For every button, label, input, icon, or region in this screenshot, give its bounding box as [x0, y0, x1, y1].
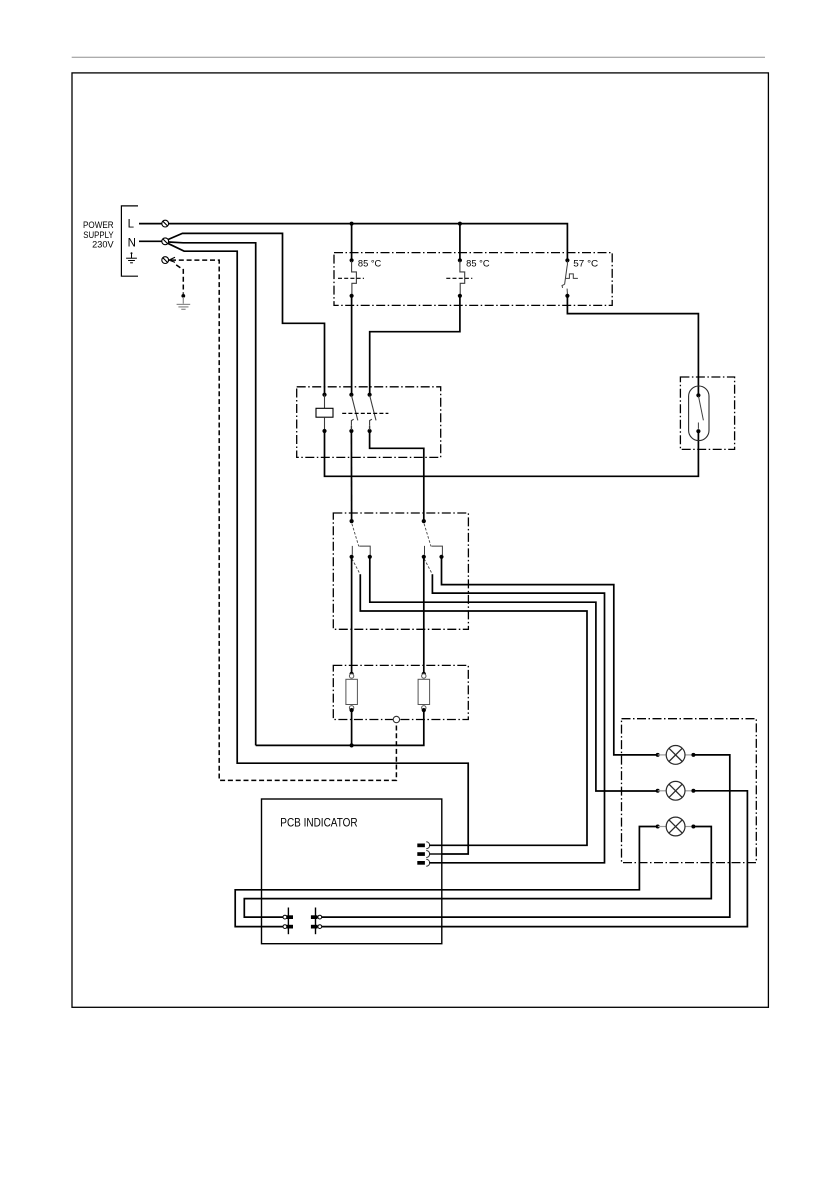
- svg-text:SUPPLY: SUPPLY: [83, 230, 113, 240]
- wire selector pole2 to heater element R2: [423, 557, 425, 674]
- svg-text:PCB INDICATOR: PCB INDICATOR: [280, 815, 358, 829]
- header rule: [72, 56, 765, 58]
- wire selector pole1 to heater element R1: [351, 557, 353, 674]
- thermal cutout F2 85C: [446, 258, 472, 298]
- wire lamp H2 to PCB connector J2 pin2: [322, 791, 748, 927]
- relay enclosure box: [297, 387, 441, 458]
- wire N branch to PCB supply: [168, 243, 468, 854]
- lamp H1: [656, 746, 696, 765]
- earth pictogram at bracket: [126, 252, 137, 263]
- wire L drop to 85C no.2: [459, 224, 461, 261]
- wire N branch to heater return: [169, 242, 256, 745]
- wire 85C no.2 to relay contact K2: [370, 296, 460, 395]
- wire earth dashed to heater frame: [171, 260, 396, 780]
- wire L bus to thermal cutouts and 57C thermostat: [169, 224, 568, 261]
- node L-85a: [350, 222, 354, 226]
- wire 85C no.1 to relay contact K1: [351, 296, 353, 395]
- wire relay K1 to selector pole 1: [350, 431, 352, 521]
- wire earth dashed branch to ground: [176, 265, 183, 294]
- PCB connector J2: [311, 908, 322, 935]
- PCB indicator box: [262, 799, 442, 944]
- relay contact K2: [368, 393, 377, 434]
- power supply bracket: [121, 206, 138, 276]
- label POWER SUPPLY 230V: [83, 220, 114, 249]
- svg-text:85 °C: 85 °C: [358, 258, 382, 268]
- wire selector pole2 aux to PCB pin 3: [429, 574, 604, 863]
- terminal N: [162, 238, 169, 245]
- selector switch pole 2: [422, 519, 444, 574]
- node heater return: [350, 743, 354, 747]
- selector switch enclosure box: [333, 513, 468, 629]
- wire N branch to relay coil: [168, 233, 325, 394]
- wire relay K2 to selector pole 2: [370, 431, 424, 521]
- heating element R1: [346, 672, 358, 713]
- ground symbol: [177, 297, 191, 309]
- thermostat 57C: [562, 258, 578, 298]
- thermal cutout F1 85C: [338, 258, 364, 298]
- terminal L: [162, 220, 169, 227]
- wire N lead: [139, 240, 162, 242]
- relay contact K1: [349, 393, 358, 434]
- wire selector pole2 throw to lamp 1: [442, 557, 658, 755]
- selector switch pole 1: [350, 519, 372, 574]
- wire R2 return: [352, 710, 424, 745]
- wire L drop to 85C no.1: [351, 224, 353, 261]
- relay coil K: [316, 393, 333, 434]
- relay linkage dashed: [342, 412, 388, 414]
- node L-85b: [458, 222, 462, 226]
- svg-text:85 °C: 85 °C: [466, 258, 490, 268]
- node earth: [181, 294, 185, 298]
- PCB output pin 1: [417, 842, 442, 849]
- terminal earth: [162, 257, 169, 264]
- heater frame earth terminal: [393, 716, 399, 722]
- wire relay coil to tilt switch common: [325, 431, 699, 476]
- svg-text:POWER: POWER: [83, 220, 114, 230]
- drawing frame border: [72, 73, 768, 1007]
- wire selector pole1 aux to PCB pin 1: [360, 574, 587, 845]
- svg-text:L: L: [128, 218, 135, 230]
- lamp H3: [656, 817, 696, 836]
- wire L lead: [139, 223, 162, 225]
- PCB connector J1: [283, 908, 293, 935]
- wire lamp H1 to PCB connector J2 pin1: [322, 755, 730, 917]
- lamps enclosure box: [622, 719, 757, 863]
- heater enclosure box: [333, 665, 468, 719]
- wire lamp H3 right to PCB connector J1 pin1: [244, 827, 711, 918]
- svg-text:57 °C: 57 °C: [573, 258, 598, 268]
- wire heater return bus: [256, 710, 352, 745]
- thermal cutout enclosure box: [334, 253, 612, 306]
- wire 57C to tilt switch: [567, 296, 698, 395]
- PCB output pin 3: [417, 859, 442, 866]
- heating element R2: [418, 672, 430, 713]
- tilt switch body stadium: [689, 386, 709, 441]
- svg-text:N: N: [128, 238, 136, 250]
- wire selector pole1 throw to lamp 2: [370, 557, 658, 791]
- tilt switch contact: [696, 393, 703, 433]
- wire lamp H3 left to PCB connector J1 pin2: [235, 827, 658, 927]
- PCB output pin 2: [417, 851, 442, 858]
- lamp H2: [656, 781, 696, 800]
- svg-text:230V: 230V: [92, 239, 114, 249]
- earth arrowhead: [169, 257, 175, 262]
- tilt switch enclosure box: [680, 377, 734, 449]
